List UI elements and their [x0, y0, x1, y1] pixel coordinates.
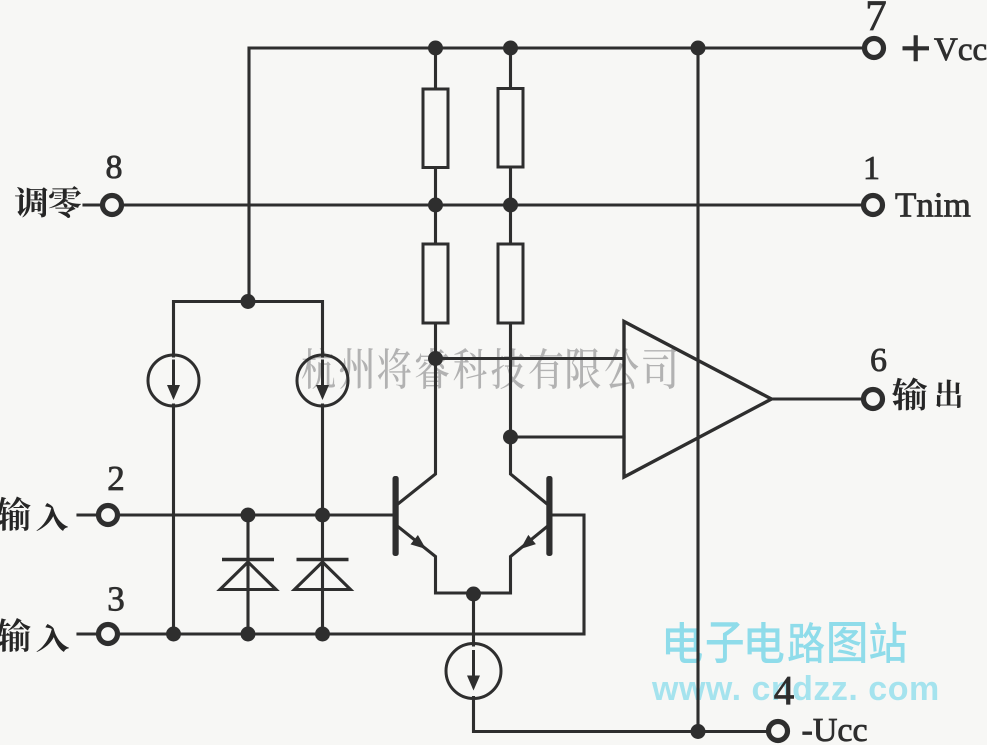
svg-text:1: 1 — [863, 150, 880, 187]
svg-text:6: 6 — [870, 342, 887, 379]
svg-text:7: 7 — [865, 0, 887, 40]
svg-text:3: 3 — [107, 580, 125, 619]
svg-text:-Ucc: -Ucc — [802, 712, 868, 745]
svg-text:4: 4 — [774, 667, 795, 713]
svg-text:www. cndzz. com: www. cndzz. com — [651, 670, 940, 708]
svg-text:8: 8 — [106, 149, 123, 186]
svg-text:2: 2 — [107, 459, 125, 498]
svg-text:Tnim: Tnim — [895, 186, 971, 225]
svg-text:Vcc: Vcc — [934, 32, 987, 68]
